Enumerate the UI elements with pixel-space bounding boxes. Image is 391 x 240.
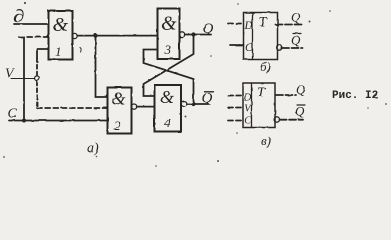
svg-text:Q: Q: [202, 91, 213, 107]
inverter bubble gate 3: [179, 32, 184, 37]
inverter bubble DD2: [274, 117, 279, 122]
wire V to connector: [11, 78, 35, 80]
svg-text:&: &: [53, 14, 69, 36]
wire feedback down to gate 2: [96, 36, 108, 97]
inverter bubble gate 4: [181, 101, 186, 106]
svg-text:4: 4: [164, 115, 171, 130]
scan speckles (noise): [3, 2, 387, 167]
wire D input to gate 1: [14, 23, 49, 25]
svg-text:&: &: [160, 87, 174, 107]
svg-text:C: C: [8, 107, 18, 122]
wire dashed V-branch vertical: [36, 58, 38, 108]
svg-text:1: 1: [55, 44, 62, 59]
wire cross-coupling gate3-out to gate4-in: [144, 35, 194, 97]
junction gate1-out / feedback: [93, 34, 97, 38]
svg-text:T: T: [259, 15, 268, 30]
wire C input of DD2: [228, 120, 243, 122]
svg-text:2: 2: [114, 118, 121, 133]
wire Qbar output of DD2: [280, 119, 303, 121]
svg-text:&: &: [161, 13, 177, 35]
svg-text:C: C: [245, 42, 253, 54]
svg-text:T: T: [257, 86, 266, 101]
gate D2 (AND, &): [108, 88, 132, 134]
wire stub into gate 1 third input: [37, 49, 49, 58]
svg-text:Q: Q: [296, 82, 306, 97]
svg-text:Q: Q: [203, 21, 214, 37]
wire vertical from C line up to dashed branch: [23, 37, 25, 120]
svg-text:Q: Q: [291, 10, 301, 25]
wire cross-coupling gate4-out to gate3-in: [144, 50, 194, 105]
svg-text:Рис. I2: Рис. I2: [332, 90, 378, 102]
wire Qbar output of DD1: [282, 47, 303, 49]
wire V input of DD2: [228, 107, 243, 109]
gate D1 (AND, &): [49, 11, 73, 60]
node Qbar label of DD1: [291, 33, 301, 48]
svg-text:&: &: [112, 89, 126, 109]
junction C/vertical: [22, 119, 26, 123]
wire gate 4 output to Qbar: [187, 103, 209, 105]
wire D input of DD1: [228, 23, 244, 25]
svg-text:D: D: [243, 93, 252, 104]
gate D3 (AND, &): [158, 9, 180, 60]
wire D input of DD2: [228, 95, 243, 97]
inverter bubble gate 1: [72, 33, 77, 38]
svg-text:C: C: [244, 116, 252, 127]
flip-flop DD1 (T, subfig b): [244, 13, 278, 60]
junction Q: [191, 32, 195, 36]
flip-flop DD2 (T with V, subfig v): [243, 83, 275, 128]
svg-text:а): а): [87, 141, 99, 156]
node Qbar (output label): [202, 91, 214, 107]
node Qbar label of DD2: [295, 104, 305, 119]
svg-text:Q: Q: [291, 33, 301, 48]
svg-text:б): б): [260, 59, 271, 74]
node V connector circle: [35, 76, 40, 81]
svg-text:в): в): [261, 133, 271, 148]
wire C input of DD1: [230, 44, 244, 46]
svg-text:Q: Q: [295, 104, 305, 119]
wire gate 2 output to gate 4: [137, 106, 155, 108]
inverter bubble DD1: [277, 45, 282, 50]
inverter bubble gate 2: [132, 104, 137, 109]
svg-text:D: D: [244, 20, 254, 32]
junction Qbar: [191, 102, 195, 106]
gate D4 (AND, &): [155, 85, 182, 132]
wire gate 1 output to gate 3: [77, 35, 157, 37]
wire C-branch dashed into gate 1: [19, 36, 49, 38]
wire gate 3 output to Q: [185, 34, 211, 36]
wire C horizontal to gate 2: [9, 120, 107, 122]
wire dashed V-branch horizontal to gate 2: [37, 107, 107, 109]
svg-text:3: 3: [164, 42, 172, 57]
wire Q output of DD2: [276, 94, 296, 96]
wire Q output of DD1: [276, 24, 303, 26]
svg-text:V: V: [5, 67, 15, 82]
